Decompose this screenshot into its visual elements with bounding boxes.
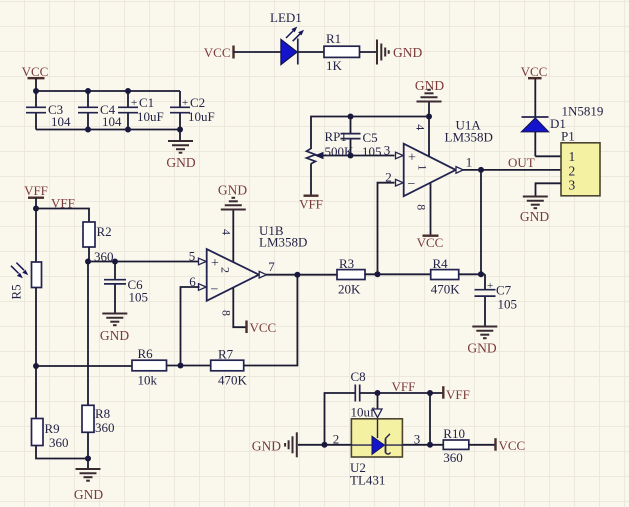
svg-text:LM358D: LM358D <box>259 235 307 250</box>
pin arrow into U2 <box>373 409 382 418</box>
svg-text:105: 105 <box>498 297 518 312</box>
svg-text:R5: R5 <box>9 284 24 299</box>
svg-text:8: 8 <box>220 310 234 316</box>
svg-text:20K: 20K <box>338 282 361 297</box>
wire bottom rail of cap bank <box>36 129 180 131</box>
wire U2 pin3 to R10 <box>403 444 443 446</box>
svg-text:470K: 470K <box>431 282 461 297</box>
wire D1 to P1 pin1 <box>535 155 561 157</box>
svg-text:4: 4 <box>413 124 427 130</box>
svg-text:R1: R1 <box>326 31 341 46</box>
wire top rail of cap bank <box>36 90 180 92</box>
svg-text:GND: GND <box>218 183 247 198</box>
svg-text:360: 360 <box>49 435 69 450</box>
wire wiper node to U1A pin3 <box>351 155 395 157</box>
wire R3 to R4 <box>365 273 431 275</box>
svg-text:4: 4 <box>220 229 234 235</box>
svg-text:RP1: RP1 <box>325 129 347 144</box>
capacitor C5 <box>341 117 382 160</box>
svg-text:C8: C8 <box>351 369 366 384</box>
svg-text:R6: R6 <box>138 346 154 361</box>
power port VCC (top-left) <box>22 64 49 91</box>
svg-text:VFF: VFF <box>392 379 416 394</box>
svg-text:+: + <box>182 97 188 109</box>
svg-text:GND: GND <box>166 155 195 170</box>
resistor R3 <box>337 256 365 297</box>
svg-text:5: 5 <box>189 249 196 264</box>
svg-text:2: 2 <box>333 432 340 447</box>
svg-text:+: + <box>131 97 137 109</box>
ground below C7 <box>467 327 497 356</box>
resistor R7 <box>211 347 248 388</box>
svg-text:R4: R4 <box>433 256 449 271</box>
potentiometer RP1 <box>307 129 355 196</box>
power port VCC (U1A pin8) <box>417 235 444 250</box>
wire U2 pin2 to ground <box>298 444 351 446</box>
wire U1B pin6 <box>181 287 200 366</box>
ground below P1 pin3 <box>520 197 549 225</box>
ground below C2 <box>166 130 195 171</box>
node C8/VFF junction <box>375 390 381 396</box>
photoresistor R5 <box>9 209 42 367</box>
capacitor C7 (polarized) <box>475 274 518 326</box>
power port VFF (right) <box>443 386 470 402</box>
capacitor C8 <box>325 369 378 445</box>
node output junction <box>478 167 484 173</box>
node C5 bottom junction <box>348 153 354 159</box>
svg-text:−: − <box>211 283 219 298</box>
wire R1 to ground <box>360 51 377 53</box>
node top rail junctions <box>33 88 131 94</box>
svg-text:GND: GND <box>74 487 103 502</box>
wire VCC to LED <box>234 51 282 53</box>
power port VCC (right of R10) <box>496 438 526 453</box>
capacitor C4 <box>78 91 122 130</box>
svg-text:GND: GND <box>252 439 281 454</box>
svg-text:GND: GND <box>520 209 549 224</box>
node R6/R7 junction <box>178 363 184 369</box>
svg-text:1: 1 <box>569 149 576 164</box>
connector P1 <box>561 129 600 196</box>
svg-text:R10: R10 <box>443 426 465 441</box>
wire bottom rail to R6 <box>36 365 132 367</box>
svg-text:C5: C5 <box>363 130 378 145</box>
svg-text:VCC: VCC <box>521 64 548 79</box>
svg-text:10uF: 10uF <box>188 109 215 124</box>
shunt regulator U2 TL431 <box>350 419 403 488</box>
node bottom rail junctions <box>85 127 183 133</box>
ground below C6 <box>100 314 129 344</box>
node feedback junction <box>375 271 381 277</box>
resistor R6 <box>132 346 167 388</box>
wire R4 to output column <box>459 273 485 275</box>
svg-text:GND: GND <box>100 328 129 343</box>
capacitor C2 (polarized) <box>170 91 215 130</box>
wire VFF to R2 <box>36 209 89 223</box>
ground above U1A (flipped) <box>415 78 444 117</box>
svg-text:7: 7 <box>268 259 275 274</box>
svg-text:+: + <box>408 151 416 166</box>
svg-text:−: − <box>408 177 416 192</box>
wire pin5 row <box>88 261 200 263</box>
svg-text:OUT: OUT <box>508 155 535 170</box>
op-amp U1A <box>384 117 493 236</box>
svg-text:10uf: 10uf <box>351 405 376 420</box>
svg-text:C2: C2 <box>190 95 205 110</box>
svg-text:1: 1 <box>416 165 430 171</box>
svg-text:360: 360 <box>443 450 463 465</box>
svg-text:VCC: VCC <box>499 438 526 453</box>
svg-text:VFF: VFF <box>24 183 48 198</box>
capacitor C6 <box>104 262 148 314</box>
wire U1A pin2 feedback <box>378 183 395 275</box>
svg-text:R7: R7 <box>218 347 234 362</box>
node R4/C7 junction <box>478 271 484 277</box>
resistor R4 <box>431 256 461 297</box>
svg-text:GND: GND <box>415 78 444 93</box>
resistor R9 <box>32 366 89 459</box>
svg-text:GND: GND <box>393 45 422 60</box>
svg-text:+: + <box>487 280 493 292</box>
svg-text:LED1: LED1 <box>270 10 302 25</box>
wire R7 to output column <box>244 275 298 366</box>
svg-text:R9: R9 <box>45 421 60 436</box>
diode D1 1N5819 <box>522 104 604 157</box>
ground below R8/R9 <box>74 459 103 503</box>
svg-text:VFF: VFF <box>299 197 323 212</box>
svg-text:8: 8 <box>414 204 428 210</box>
power port VCC (U1B pin8) <box>247 320 277 335</box>
capacitor C1 (polarized) <box>118 91 164 130</box>
node pin3 junction <box>427 442 433 448</box>
wire VFF row <box>378 392 444 394</box>
svg-text:1K: 1K <box>326 58 343 73</box>
wire mid top rail <box>311 117 429 150</box>
svg-text:2: 2 <box>219 267 233 273</box>
power port VFF (top-left) <box>24 183 48 209</box>
power port VFF (below RP1) <box>299 196 323 212</box>
wire U1B output row <box>266 274 337 276</box>
ground left of U2 (rotated) <box>252 432 297 457</box>
wire R10 to VCC <box>469 444 496 446</box>
wire U2 pin1 (ref) <box>377 393 379 409</box>
ground above U1B (flipped) <box>218 183 247 263</box>
wire P1 pin3 to ground <box>536 183 562 196</box>
svg-text:104: 104 <box>51 114 71 129</box>
svg-text:3: 3 <box>414 432 421 447</box>
svg-text:360: 360 <box>95 420 115 435</box>
wire LED to R1 <box>298 51 324 53</box>
svg-text:+: + <box>211 256 219 271</box>
svg-text:470K: 470K <box>218 373 248 388</box>
svg-text:105: 105 <box>129 290 149 305</box>
svg-text:1N5819: 1N5819 <box>562 104 604 119</box>
node VFF junction <box>33 206 39 212</box>
svg-text:VCC: VCC <box>204 45 231 60</box>
svg-text:C1: C1 <box>139 95 154 110</box>
node pin2 junction <box>322 442 328 448</box>
svg-text:10uF: 10uF <box>137 109 164 124</box>
svg-text:VCC: VCC <box>417 235 444 250</box>
LED LED1 <box>270 10 304 65</box>
svg-text:R3: R3 <box>339 256 354 271</box>
svg-text:3: 3 <box>384 143 391 158</box>
wire VFF column down to pin3 row <box>429 393 431 445</box>
svg-text:VCC: VCC <box>22 64 49 79</box>
svg-text:1: 1 <box>466 155 473 170</box>
svg-text:VCC: VCC <box>250 320 277 335</box>
op-amp U1B <box>189 223 308 327</box>
wire U1A output to P1 pin2 <box>463 169 561 171</box>
svg-text:TL431: TL431 <box>350 473 385 488</box>
svg-text:VFF: VFF <box>51 196 75 211</box>
svg-text:3: 3 <box>569 178 576 193</box>
svg-text:VFF: VFF <box>446 387 470 402</box>
wire R2 node down to R8 <box>87 262 89 406</box>
svg-text:R2: R2 <box>97 224 112 239</box>
svg-text:10k: 10k <box>138 373 158 388</box>
resistor R1 <box>324 31 360 73</box>
power port VCC (LED row) <box>204 45 234 60</box>
resistor R10 <box>443 426 469 465</box>
resistor R2 <box>83 222 114 264</box>
power port VCC (above D1) <box>521 64 548 117</box>
svg-text:2: 2 <box>569 164 576 179</box>
svg-text:R8: R8 <box>95 406 110 421</box>
svg-text:GND: GND <box>467 341 496 356</box>
ground right of R1 (rotated) <box>377 40 422 65</box>
capacitor C3 <box>26 91 71 130</box>
svg-text:C7: C7 <box>496 283 512 298</box>
node R8/R9 ground junction <box>85 456 91 462</box>
svg-text:104: 104 <box>102 114 122 129</box>
svg-text:105: 105 <box>362 144 382 159</box>
svg-text:P1: P1 <box>561 129 575 144</box>
node bottom rail left <box>33 363 39 369</box>
wire R6 to R7 <box>167 365 211 367</box>
svg-text:LM358D: LM358D <box>445 130 493 145</box>
node U1B output junction <box>294 272 300 278</box>
node pin5 junctions <box>85 259 118 265</box>
node VFF column junction <box>427 390 433 396</box>
node rail junctions <box>348 114 433 120</box>
resistor R8 <box>82 405 115 458</box>
wire output down to R4 row <box>480 170 482 274</box>
